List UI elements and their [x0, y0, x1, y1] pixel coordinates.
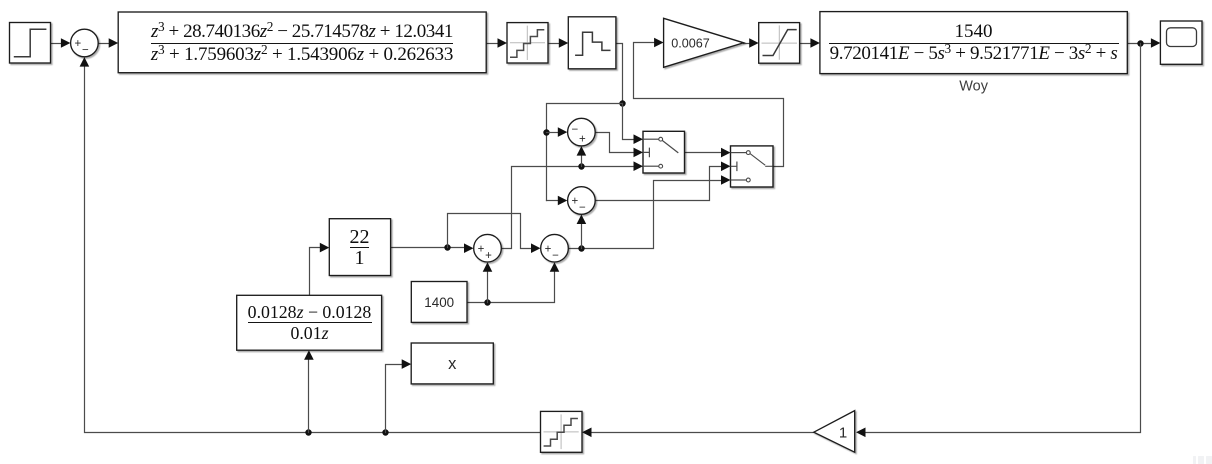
quantizer Q1: [507, 23, 548, 63]
wire Q2 output left and up to sum S1 bottom: [85, 65, 541, 433]
equation TF1: [118, 13, 486, 74]
wire ZOH output down to node A: [616, 44, 623, 104]
wire node B to sum S4 left: [547, 132, 560, 134]
gain G2 triangle 1: [814, 411, 855, 453]
arrow into SW2 input 2: [721, 162, 731, 172]
junction node C on S2-SW1 wire: [578, 163, 584, 169]
wire feedback node E down to gain G2: [866, 44, 1141, 433]
arrow into SW1 input 2: [634, 148, 644, 158]
wire node D up into sum S3 bottom: [581, 223, 583, 249]
wire node F up into block TF3 bottom: [308, 359, 310, 433]
wire sum S2 output up to SW1 input 3: [502, 167, 635, 249]
wire sum S4 output to SW1 input 2: [596, 133, 635, 153]
wire step to sum1: [51, 43, 63, 45]
arrow into sum S4 left: [558, 127, 568, 137]
svg-text:−: −: [82, 45, 89, 57]
wire sum S5 output to node D and SW2 input 3: [569, 181, 723, 249]
wire saturation to TF2: [800, 43, 812, 45]
junction node F on feedback line: [305, 429, 311, 435]
arrow into TF1: [109, 38, 119, 48]
block X to-workspace: [411, 343, 493, 384]
arrow into SW2 input 3: [721, 175, 731, 185]
arrow into TF2: [810, 38, 820, 48]
arrow into quantizer Q2 right: [582, 428, 592, 438]
junction node B: [543, 129, 549, 135]
svg-text:−: −: [579, 202, 586, 214]
wire bypass node H over sum S2 into sum S5 left: [448, 214, 533, 249]
junction node E: [1137, 40, 1143, 46]
saturation block: [759, 23, 800, 64]
wire gain G2 to quantizer Q2: [592, 432, 814, 434]
svg-text:1400: 1400: [424, 295, 454, 310]
arrow into gain G1: [654, 38, 664, 48]
junction node A: [619, 100, 625, 106]
arrow into scope: [1151, 38, 1161, 48]
wire node B branch to sum S3 left: [547, 200, 560, 202]
svg-text:x: x: [448, 355, 457, 373]
wire node A left to node B column: [547, 104, 623, 201]
equation TF3 0.0128: [237, 295, 382, 350]
arrow into ZOH: [559, 38, 569, 48]
gain G1 triangle 0.0067: [664, 18, 744, 67]
wire gain G1 to saturation: [744, 43, 751, 45]
wire TF1 to quantizer Q1: [487, 43, 499, 45]
wire SW2 output to gain G1 input: [634, 43, 784, 167]
junction node H: [444, 244, 450, 250]
sum S5: [541, 234, 569, 262]
sum S3 middle: [568, 187, 596, 215]
arrow into sum S5 left: [531, 243, 541, 253]
junction node D after sum S5: [578, 245, 584, 251]
arrow into SW1 input 1: [634, 134, 644, 144]
wire sum S3 output to switch SW2 input 2: [596, 167, 723, 201]
arrow into block X: [402, 359, 412, 369]
wire TF3 top output to block K1 input: [310, 248, 322, 296]
equation TF2: [820, 12, 1127, 74]
gain block K1 box 22/1: [329, 219, 390, 276]
arrow into sum S4 bottom: [577, 146, 587, 156]
transfer function TF1 box: [118, 12, 486, 73]
wire sum1 to TF1: [99, 43, 110, 45]
arrow into sum S3 bottom: [577, 215, 587, 225]
arrow into sum S1 bottom: [80, 57, 90, 67]
arrow into gain G2 right: [856, 428, 866, 438]
watermark bottom right: [1193, 456, 1212, 464]
arrow into sum S3 left: [558, 196, 568, 206]
svg-text:+: +: [545, 243, 552, 255]
arrow into quantizer Q1: [498, 38, 508, 48]
wire constant 1400 output to node I: [468, 271, 555, 303]
scope block: [1160, 21, 1202, 64]
transfer function TF3 box 0.0128: [237, 295, 382, 350]
svg-text:+: +: [485, 250, 492, 262]
svg-text:+: +: [478, 243, 485, 255]
step block: [10, 23, 51, 64]
constant block 1400: [411, 282, 467, 323]
svg-text:+: +: [75, 38, 82, 50]
wire node G up to block X input: [386, 365, 404, 433]
wire node I up into sum S2 bottom: [487, 271, 489, 303]
junction node G on feedback line: [382, 429, 388, 435]
arrow into SW2 input 1: [721, 148, 731, 158]
arrow into block K1: [320, 243, 330, 253]
svg-text:+: +: [579, 134, 586, 146]
wire K1 output to node H and sum S2: [391, 247, 466, 249]
svg-text:Woy: Woy: [959, 79, 988, 95]
svg-text:+: +: [572, 196, 579, 208]
wire SW1 output to SW2 input 1: [685, 152, 723, 154]
transfer function TF2 box Woy: [820, 12, 1127, 95]
switch SW2: [731, 146, 774, 187]
svg-text:0.0067: 0.0067: [671, 36, 710, 50]
equation K1 22 over 1: [329, 219, 390, 276]
svg-text:−: −: [552, 250, 559, 262]
arrow into TF3 bottom: [304, 350, 314, 360]
sum S4 top: [568, 118, 596, 146]
arrow into saturation: [749, 38, 759, 48]
arrow into sum S2 left: [464, 243, 474, 253]
arrow into sum S5 bottom: [550, 262, 560, 272]
arrow into SW1 input 3: [634, 161, 644, 171]
svg-text:−: −: [572, 124, 579, 136]
wire Q1 to ZOH: [549, 43, 560, 45]
junction node I: [484, 299, 490, 305]
arrow into sum1: [61, 38, 71, 48]
wire node C up into sum S4 bottom: [581, 155, 583, 167]
sum S2: [474, 234, 502, 262]
zero-order hold ZOH: [568, 17, 616, 69]
arrow into sum S2 bottom: [483, 262, 493, 272]
switch SW1: [643, 131, 685, 173]
quantizer Q2: [541, 411, 583, 452]
wire TF2 to scope with node E: [1128, 43, 1153, 45]
sum S1: [71, 29, 99, 57]
svg-text:1: 1: [839, 425, 847, 442]
wire node A down to switch SW1 input 1: [623, 104, 635, 140]
